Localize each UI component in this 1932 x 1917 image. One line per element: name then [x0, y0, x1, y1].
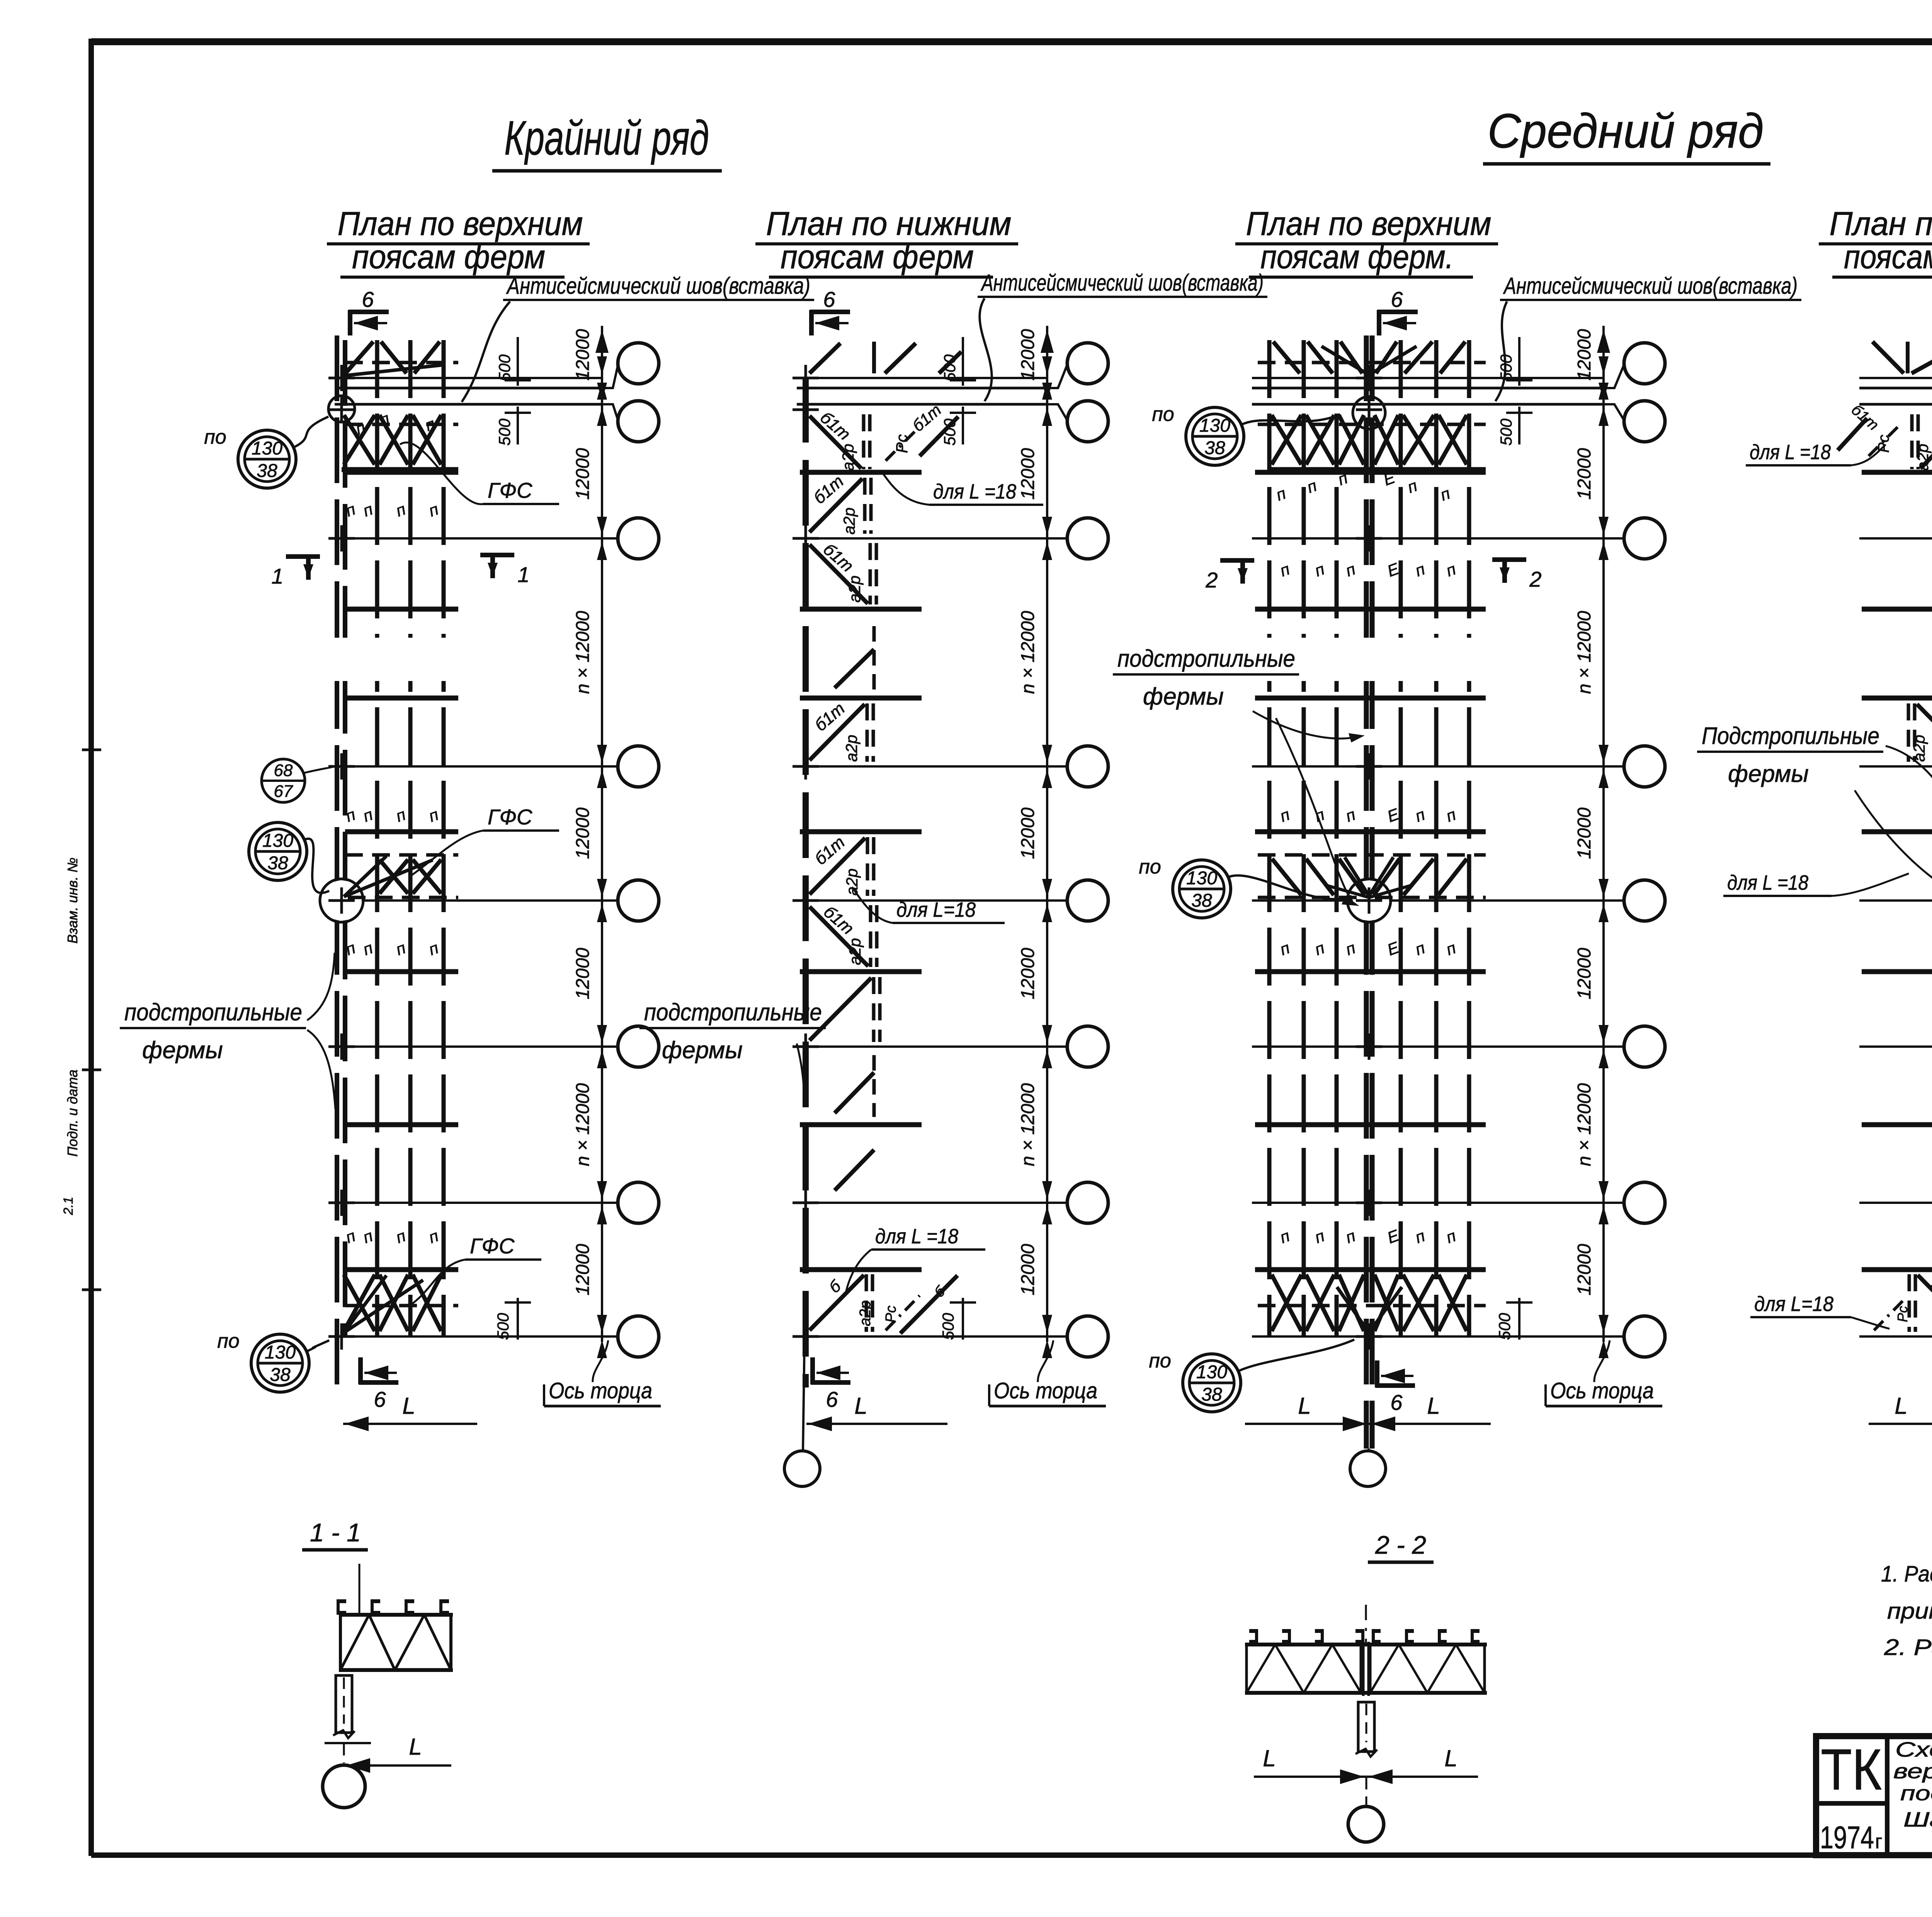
label ГФС bottom with leader	[410, 1234, 541, 1306]
svg-text:примечания см. листы : 1÷4: примечания см. листы : 1÷4 ; 9÷12 .	[1887, 1599, 1932, 1624]
strip 3 mid braced bay above axis row 5	[1258, 855, 1486, 897]
strip 3 bottom column bubble	[1350, 1451, 1386, 1486]
svg-text:а2р: а2р	[842, 735, 861, 762]
label ГФС middle with leader	[410, 805, 559, 877]
svg-text:6: 6	[374, 1387, 386, 1411]
svg-text:поясам ферм: поясам ферм	[352, 238, 545, 276]
svg-text:L: L	[402, 1393, 415, 1419]
grid bubble по 130/38 at strip 3 row 5	[1139, 856, 1352, 918]
svg-text:12000: 12000	[1574, 329, 1595, 381]
section 2-2 L dimensions	[1254, 1745, 1478, 1784]
svg-text:Схемы расположения прогонов: Схемы расположения прогонов и связей по	[1895, 1738, 1932, 1761]
svg-text:План по верхним: План по верхним	[338, 205, 583, 242]
svg-text:6: 6	[1391, 287, 1403, 312]
section mark 6 bottom of strip 1	[359, 1357, 398, 1411]
svg-text:38: 38	[1204, 438, 1225, 458]
svg-text:n × 12000: n × 12000	[1574, 611, 1595, 694]
svg-text:а2р: а2р	[846, 938, 864, 965]
strip 1 axis row lines to dimension line	[333, 377, 602, 379]
label подстропильные фермы (strip 2)	[639, 999, 826, 1102]
svg-text:500: 500	[495, 418, 514, 446]
section mark 6 bottom of strip 2	[811, 1357, 850, 1411]
svg-text:2 - 2: 2 - 2	[1375, 1531, 1426, 1559]
svg-text:Подп. и дата: Подп. и дата	[65, 1069, 80, 1156]
section 2-2 truss elevation (two spans)	[1245, 1605, 1487, 1696]
svg-text:38: 38	[270, 1365, 291, 1385]
svg-text:Антисейсмический шов(вставка): Антисейсмический шов(вставка)	[981, 270, 1264, 296]
svg-text:а2р: а2р	[843, 868, 861, 896]
section 1-1 column bubble	[323, 1765, 365, 1808]
svg-text:Ось торца: Ось торца	[994, 1378, 1097, 1403]
svg-text:L: L	[1263, 1745, 1276, 1771]
svg-text:L: L	[1444, 1745, 1457, 1771]
label антисейсмический шов (strip 2) with leader	[978, 270, 1267, 401]
svg-text:500: 500	[939, 1313, 957, 1340]
strip 2 bottom dense bracing	[810, 1274, 957, 1333]
strip 2 single diagonal in bay 6	[835, 1073, 874, 1113]
subtitle strip4: План по нижним поясам ферм.	[1819, 205, 1932, 277]
grid bubble по 130/38 at strip 1 seam node	[204, 396, 355, 488]
strip 2 bracing bay above row 3	[810, 478, 862, 532]
label подстропильные фермы (strip 3)	[1113, 645, 1365, 906]
svg-text:фермы: фермы	[1143, 683, 1224, 710]
labels для L=18 near strip 4 middle	[1723, 871, 1932, 896]
svg-text:Шаг колонн 12 м.: Шаг колонн 12 м.	[1903, 1808, 1932, 1831]
svg-text:по: по	[204, 426, 226, 448]
strip 2 axis tail to bottom bubble	[803, 1340, 804, 1451]
svg-text:130: 130	[262, 831, 293, 851]
strip 1 seam double line (вставка)	[335, 387, 602, 390]
labels для L=18 near strip 4 top	[1746, 441, 1932, 465]
svg-text:12000: 12000	[573, 448, 593, 500]
strip 3 braced bay below seam	[1258, 415, 1486, 504]
svg-text:План по верхним: План по верхним	[1246, 205, 1492, 242]
section 1-1 truss elevation	[337, 1564, 453, 1670]
svg-text:1: 1	[517, 562, 529, 587]
strip 3 top end bracing fan	[1258, 342, 1486, 375]
svg-text:12000: 12000	[1574, 1244, 1595, 1296]
svg-text:6: 6	[362, 287, 374, 312]
svg-text:67: 67	[274, 782, 293, 801]
strip 3 break gap in n×12000 bay	[1255, 638, 1488, 681]
strip 3 axis node crosses on centre line	[1356, 377, 1382, 380]
svg-text:подстропильные: подстропильные	[124, 999, 302, 1026]
svg-text:а2р: а2р	[839, 444, 857, 471]
title block description text	[1893, 1738, 1932, 1831]
section cut 2 right of strip 3	[1492, 558, 1542, 591]
svg-text:фермы: фермы	[142, 1037, 223, 1064]
svg-text:для L=18: для L=18	[896, 898, 976, 921]
title block frame	[1816, 1736, 1932, 1855]
svg-text:Антисейсмический шов(вставка): Антисейсмический шов(вставка)	[1503, 273, 1798, 299]
strip 4 bottom dense bracing, mirrored	[1874, 1274, 1932, 1332]
svg-text:2: 2	[1205, 568, 1218, 592]
strip 2 single diagonal near break	[835, 649, 874, 688]
strip 1 axis node crosses	[328, 377, 355, 380]
svg-text:фермы: фермы	[662, 1037, 743, 1064]
svg-text:по: по	[1139, 856, 1161, 878]
svg-text:1. Расположение связей и: 1. Расположение связей и таблицы элемент…	[1881, 1561, 1932, 1587]
svg-text:12000: 12000	[1574, 448, 1595, 500]
strip 2 seam double line (вставка)	[797, 387, 1047, 390]
svg-text:L: L	[1427, 1393, 1440, 1419]
strip 1 braced bay below seam (connections ГФС)	[342, 409, 458, 470]
svg-text:поясам ферм.: поясам ферм.	[1260, 238, 1454, 276]
svg-text:1 - 1: 1 - 1	[310, 1518, 361, 1547]
svg-text:L: L	[1895, 1393, 1907, 1419]
svg-text:ГФС: ГФС	[488, 478, 532, 502]
strip 1 purlin line 2	[408, 340, 413, 1337]
svg-text:а2р: а2р	[845, 575, 864, 603]
svg-text:по: по	[1152, 403, 1174, 426]
svg-text:Крайний ряд: Крайний ряд	[504, 111, 709, 165]
section 2-2 column bubble	[1348, 1806, 1384, 1842]
strip 1 purlin line 1	[375, 340, 379, 1337]
strip 1 bottom braced bay	[344, 1275, 458, 1333]
svg-text:а2р: а2р	[1910, 735, 1928, 762]
strip 1 purlin line 3	[442, 340, 446, 1337]
svg-text:подстропильные: подстропильные	[644, 999, 822, 1026]
strip 2 bracing bay below row 5	[810, 907, 868, 966]
svg-text:L: L	[409, 1734, 422, 1760]
strip 3 bottom L dimensions	[1245, 1393, 1491, 1431]
strip 2 bracing bay below row 3	[810, 545, 868, 604]
svg-text:n × 12000: n × 12000	[1018, 1083, 1038, 1166]
svg-text:12000: 12000	[573, 807, 593, 859]
strip 2 (крайний ряд, нижние пояса) column axis line (heavy dashed)	[803, 377, 809, 1388]
svg-text:500: 500	[940, 354, 959, 381]
label ГФС top with leader	[400, 443, 559, 504]
svg-text:L: L	[854, 1393, 867, 1419]
svg-text:ГФС: ГФС	[488, 805, 532, 829]
svg-text:n × 12000: n × 12000	[573, 1083, 593, 1166]
strip 4 axis row lines to dimension line	[1859, 377, 1932, 379]
strip 2 lower-chord bracing below seam with Рс tie	[810, 400, 958, 471]
svg-text:2. Разрез 6-6 на листах 1: 2. Разрез 6-6 на листах 18 ;19	[1884, 1635, 1932, 1660]
strip 2 axis row lines to dimension line	[797, 377, 1047, 379]
svg-text:а2р: а2р	[857, 1301, 874, 1326]
svg-text:по: по	[1149, 1350, 1171, 1372]
strip 4 top end diagonal braces	[1872, 342, 1932, 373]
left margin stamp text (rotated)	[61, 858, 80, 1216]
strip 2 dimension line with 12000 labels and column circles	[939, 326, 1108, 1406]
title block year 1974г	[1820, 1820, 1882, 1855]
grid bubble 68/67 at strip 1 row 4	[262, 759, 333, 802]
strip 2 bottom L dimension	[806, 1393, 947, 1431]
strip 4 seam double line (вставка)	[1859, 387, 1932, 390]
section 2-2 label	[1368, 1531, 1434, 1562]
svg-text:поясам ферм.: поясам ферм.	[1844, 238, 1932, 276]
svg-text:500: 500	[494, 1313, 512, 1340]
svg-text:12000: 12000	[1018, 448, 1038, 500]
strip 3 dimension line with 12000 labels and column circles	[1495, 326, 1665, 1406]
svg-text:6: 6	[823, 287, 835, 312]
svg-text:L: L	[1298, 1393, 1311, 1419]
svg-text:Рс: Рс	[883, 1306, 899, 1323]
grid bubble по 130/38 at strip 1 bottom	[217, 1330, 329, 1392]
strip 3 bottom braced bay	[1258, 1275, 1486, 1333]
svg-text:а2р: а2р	[1913, 444, 1932, 471]
strip 3 node circle at row 5	[1349, 880, 1389, 921]
title Средний ряд	[1483, 104, 1770, 164]
svg-text:500: 500	[1495, 1313, 1514, 1340]
section cut 1 left of strip 1	[271, 555, 320, 588]
svg-text:500: 500	[940, 418, 959, 446]
strip 3 centre row axis (double heavy line)	[1364, 335, 1369, 1449]
section mark 6 top of strip 3	[1378, 287, 1418, 335]
labels для L=18 near strip 4 bottom	[1750, 1212, 1932, 1329]
subtitle strip1: План по верхним поясам ферм	[327, 205, 590, 277]
svg-text:Подстропильные: Подстропильные	[1702, 723, 1879, 749]
svg-text:6: 6	[826, 1387, 838, 1411]
svg-text:подстропильных ферм. Шаг: подстропильных ферм. Шаг ферм 6 м.	[1900, 1782, 1932, 1805]
strip 4 truss chord lines (split at centre)	[1862, 470, 1932, 475]
subtitle strip3: План по верхним поясам ферм.	[1235, 205, 1498, 277]
strip 3 seam double line (вставка)	[1252, 387, 1604, 390]
strip 2 single diagonal above row 7	[835, 1150, 874, 1190]
strip 3 axis tail to bottom bubble	[1368, 1449, 1369, 1451]
section cut 2 left of strip 3	[1205, 558, 1254, 592]
subtitle strip2: План по нижним поясам ферм	[755, 205, 1018, 277]
strip 1 mid braced bay above axis row 5	[344, 855, 458, 897]
svg-text:38: 38	[257, 461, 277, 481]
svg-text:n × 12000: n × 12000	[1018, 611, 1038, 694]
svg-text:Антисейсмический шов(вставка): Антисейсмический шов(вставка)	[506, 273, 810, 299]
grid bubble по 130/38 at strip 3 bottom	[1149, 1340, 1354, 1412]
svg-text:130: 130	[1199, 415, 1230, 436]
svg-text:Рс: Рс	[1875, 435, 1892, 453]
svg-text:500: 500	[1497, 354, 1515, 381]
svg-text:Средний ряд: Средний ряд	[1488, 104, 1764, 158]
svg-text:12000: 12000	[573, 329, 593, 381]
svg-text:План по нижним: План по нижним	[766, 205, 1012, 242]
svg-text:Ось торца: Ось торца	[549, 1378, 652, 1403]
strip 1 node circle at row 5	[321, 880, 362, 921]
label антисейсмический шов (strip 3) with leader	[1495, 273, 1801, 401]
strip 2 bracing bay above row 5	[810, 838, 865, 894]
strip 3 purlin verticals	[1302, 340, 1306, 1337]
section mark 6 top of strip 2	[810, 287, 850, 335]
svg-text:Ось торца: Ось торца	[1550, 1378, 1654, 1403]
strip 3 (средний ряд, верхние пояса) edge line left (dashed)	[1267, 340, 1272, 1337]
section 1-1 label	[302, 1518, 368, 1550]
svg-text:ТК: ТК	[1821, 1737, 1882, 1802]
strip 4 bracing above row 4 left	[1917, 704, 1932, 760]
svg-text:для L =18: для L =18	[1727, 871, 1808, 894]
section cut 1 right of strip 1	[480, 553, 530, 587]
strip 1 (крайний ряд, верхние пояса) column axis line A (heavy dashed, doubled)	[335, 335, 339, 1388]
strip 2 axis node crosses	[793, 377, 819, 380]
svg-text:130: 130	[265, 1342, 296, 1363]
strip 4 bottom L dimensions	[1869, 1393, 1932, 1431]
strip 3 edge line right (dashed)	[1467, 340, 1471, 1337]
labels для L=18 near strip 2	[846, 473, 1043, 1291]
svg-text:1974: 1974	[1820, 1820, 1874, 1855]
label подстропильные фермы (strip 1)	[120, 953, 335, 1109]
svg-text:для L=18: для L=18	[1754, 1292, 1833, 1316]
svg-text:n × 12000: n × 12000	[1574, 1083, 1595, 1166]
strip 3 axis row lines to dimension line	[1252, 377, 1604, 379]
strip 2 bottom column bubble	[784, 1451, 820, 1486]
svg-text:г: г	[1875, 1830, 1883, 1853]
svg-text:для L =18: для L =18	[933, 480, 1016, 503]
svg-text:поясам ферм: поясам ферм	[781, 238, 974, 276]
svg-text:12000: 12000	[1018, 329, 1038, 381]
svg-text:по: по	[217, 1330, 240, 1352]
svg-text:130: 130	[252, 438, 282, 459]
svg-text:Взам. инв. №: Взам. инв. №	[65, 858, 80, 944]
strip 2 bracing bay above row 4	[810, 704, 865, 760]
svg-text:130: 130	[1196, 1362, 1227, 1382]
strip 1 bottom L dimension	[343, 1393, 477, 1431]
section 1-1 column with break	[325, 1675, 371, 1743]
svg-text:фермы: фермы	[1728, 761, 1809, 787]
svg-text:12000: 12000	[1018, 1244, 1038, 1296]
section 1-1 L dimension and axis	[344, 1734, 451, 1773]
title Крайний ряд	[492, 111, 722, 171]
svg-text:68: 68	[274, 761, 293, 780]
svg-text:12000: 12000	[1574, 948, 1595, 999]
grid bubble по 130/38 at strip 3 seam node	[1152, 397, 1385, 465]
svg-text:Рс: Рс	[893, 434, 911, 453]
svg-text:12000: 12000	[1018, 948, 1038, 999]
svg-text:500: 500	[495, 354, 514, 381]
svg-text:подстропильные: подстропильные	[1117, 645, 1295, 672]
svg-text:а2р: а2р	[840, 507, 858, 535]
svg-text:1: 1	[271, 564, 283, 588]
strip 2 bracing bay below row 6	[810, 978, 871, 1040]
svg-text:для L =18: для L =18	[875, 1225, 958, 1248]
left margin tick marks	[82, 750, 101, 1290]
section mark 6 bottom of strip 3	[1376, 1360, 1415, 1415]
svg-text:130: 130	[1186, 868, 1217, 889]
strip 1 top end bracing bay	[344, 342, 458, 376]
strip 1 truss chord lines (фермы каждые 6 м)	[345, 470, 458, 475]
strip 1 break gap in n×12000 bay	[332, 638, 464, 681]
svg-text:38: 38	[267, 853, 288, 873]
svg-text:6: 6	[1390, 1390, 1403, 1415]
svg-text:верхним и нижним поясам ферм: верхним и нижним поясам ферм при наличии	[1893, 1760, 1932, 1783]
section mark 6 top of strip 1	[349, 287, 389, 335]
svg-text:500: 500	[1497, 418, 1515, 446]
svg-text:12000: 12000	[1574, 807, 1595, 859]
section 2-2 column with break	[1355, 1702, 1377, 1757]
strip 2 truss chord lines	[800, 470, 922, 475]
svg-text:12000: 12000	[573, 1244, 593, 1296]
strip 1 dimension line with 12000 labels and column circles	[494, 326, 661, 1406]
svg-text:для L =18: для L =18	[1750, 441, 1831, 464]
svg-text:План по нижним: План по нижним	[1830, 205, 1932, 242]
svg-text:12000: 12000	[573, 948, 593, 999]
label Подстропильные фермы (strip 4)	[1697, 723, 1932, 901]
grid bubble 130/38 at strip 1 row 5	[249, 822, 329, 893]
svg-text:ГФС: ГФС	[470, 1234, 515, 1258]
svg-text:38: 38	[1191, 890, 1212, 911]
svg-text:n × 12000: n × 12000	[573, 611, 593, 694]
svg-text:2: 2	[1529, 567, 1541, 591]
svg-text:38: 38	[1201, 1384, 1222, 1405]
svg-text:2.1: 2.1	[61, 1197, 76, 1215]
strip 3 truss chord lines	[1255, 470, 1486, 475]
svg-text:Рс: Рс	[1895, 1306, 1910, 1322]
svg-text:12000: 12000	[1018, 807, 1038, 859]
strip 4 lower-chord bracing below seam, mirrored	[1838, 401, 1932, 471]
label антисейсмический шов (strip 1) with leader	[462, 273, 814, 402]
strip 2 top end diagonal braces	[810, 342, 961, 373]
